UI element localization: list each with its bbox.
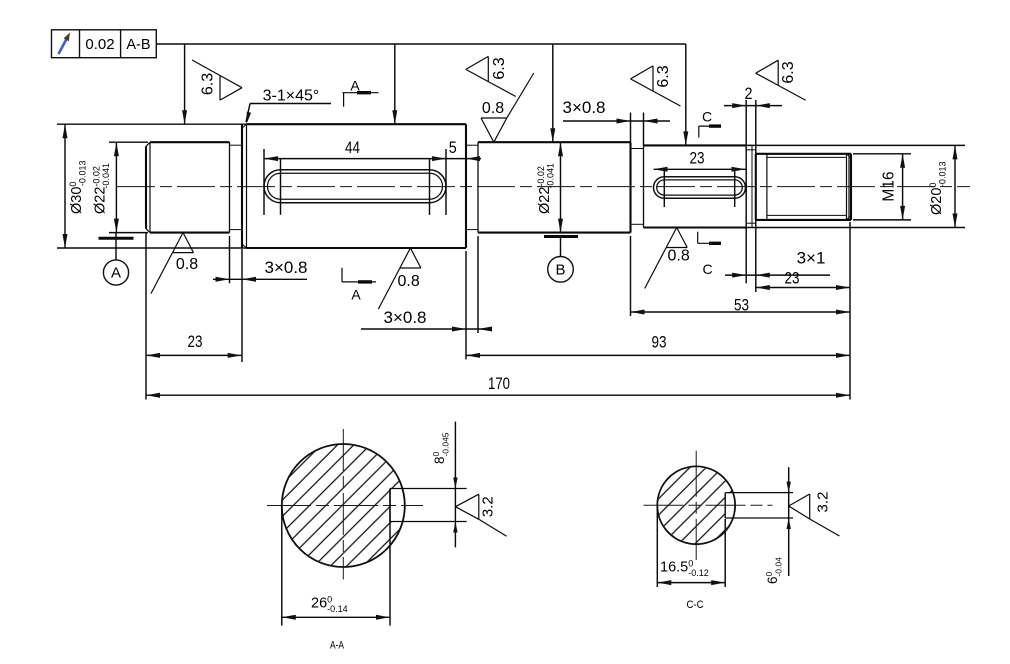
svg-text:B: B — [555, 262, 565, 279]
svg-text:A-B: A-B — [126, 37, 150, 53]
svg-text:C: C — [702, 261, 712, 277]
svg-text:6.3: 6.3 — [200, 73, 217, 95]
svg-text:16.50-0.12: 16.50-0.12 — [660, 559, 709, 579]
svg-text:260-0.14: 260-0.14 — [311, 595, 348, 615]
svg-text:Ø22-0.02-0.041: Ø22-0.02-0.041 — [536, 163, 556, 214]
svg-text:Ø300-0.013: Ø300-0.013 — [68, 161, 88, 214]
svg-text:A: A — [111, 265, 121, 282]
svg-text:3×0.8: 3×0.8 — [562, 98, 605, 117]
svg-text:6.3: 6.3 — [780, 61, 797, 83]
svg-text:C-C: C-C — [687, 599, 704, 611]
svg-text:0.02: 0.02 — [85, 36, 114, 53]
svg-text:5: 5 — [449, 138, 457, 157]
svg-text:3-1×45°: 3-1×45° — [263, 88, 320, 105]
svg-text:93: 93 — [652, 333, 667, 352]
svg-text:60-0.04: 60-0.04 — [764, 557, 784, 584]
svg-text:6.3: 6.3 — [655, 65, 672, 87]
svg-text:80-0.045: 80-0.045 — [431, 432, 451, 464]
svg-text:0.8: 0.8 — [397, 273, 419, 290]
svg-text:23: 23 — [188, 332, 203, 351]
svg-text:2: 2 — [745, 84, 753, 103]
svg-text:3.2: 3.2 — [479, 496, 496, 517]
svg-text:Ø200-0.013: Ø200-0.013 — [928, 162, 948, 215]
svg-text:0.8: 0.8 — [667, 248, 689, 265]
svg-text:44: 44 — [345, 138, 360, 157]
svg-text:0.8: 0.8 — [482, 100, 504, 117]
svg-text:0.8: 0.8 — [176, 256, 198, 273]
svg-text:23: 23 — [785, 269, 800, 288]
svg-text:A: A — [351, 287, 361, 303]
svg-text:3×1: 3×1 — [797, 249, 826, 268]
svg-text:C: C — [702, 109, 712, 125]
svg-text:170: 170 — [488, 374, 510, 393]
svg-text:A: A — [350, 78, 360, 94]
svg-text:Ø22-0.02-0.041: Ø22-0.02-0.041 — [92, 163, 112, 214]
svg-text:3×0.8: 3×0.8 — [264, 258, 307, 277]
svg-text:23: 23 — [690, 149, 705, 168]
svg-text:3.2: 3.2 — [815, 492, 832, 513]
svg-text:M16: M16 — [881, 171, 898, 201]
svg-text:6.3: 6.3 — [491, 57, 508, 79]
svg-text:3×0.8: 3×0.8 — [383, 308, 426, 327]
svg-text:A-A: A-A — [330, 640, 345, 652]
svg-text:53: 53 — [734, 296, 749, 315]
